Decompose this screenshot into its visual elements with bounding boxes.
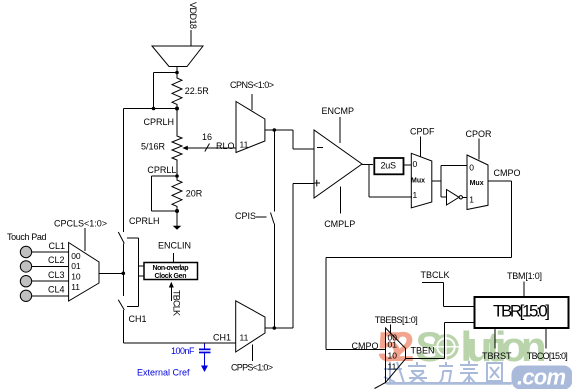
svg-text:CH1: CH1 [213,333,231,343]
svg-text:00: 00 [71,251,81,261]
svg-text:CPNS<1:0>: CPNS<1:0> [230,80,274,90]
svg-text:01: 01 [388,340,398,350]
svg-text:TBM[1:0]: TBM[1:0] [507,271,542,281]
svg-text:.com: .com [517,365,566,389]
svg-text:CPCLS<1:0>: CPCLS<1:0> [54,219,107,229]
svg-text:CMPLP: CMPLP [324,219,355,229]
svg-text:Clock Gen: Clock Gen [155,273,187,280]
svg-text:01: 01 [71,261,81,271]
svg-text:0: 0 [469,163,474,173]
svg-text:TBCO[15:0]: TBCO[15:0] [527,351,568,361]
svg-text:CL2: CL2 [48,255,65,265]
svg-text:TBR[15:0]: TBR[15:0] [493,302,550,321]
svg-text:5/16R: 5/16R [141,142,166,152]
svg-text:TBEN: TBEN [411,346,435,356]
svg-text:22.5R: 22.5R [185,86,210,96]
svg-text:2uS: 2uS [381,161,397,171]
svg-text:Non-overlap: Non-overlap [153,265,189,272]
svg-text:10: 10 [388,351,398,361]
svg-text:CPRLH: CPRLH [144,117,175,127]
svg-text:20R: 20R [186,189,203,199]
svg-text:CPIS: CPIS [235,211,256,221]
svg-text:External Cref: External Cref [137,368,190,378]
svg-text:RLO: RLO [216,141,235,151]
svg-text:TBRST: TBRST [482,351,512,361]
svg-text:10: 10 [71,272,81,282]
svg-text:11: 11 [388,362,397,372]
svg-text:CMPO: CMPO [494,168,521,178]
svg-text:0: 0 [413,159,418,169]
svg-text:ENCMP: ENCMP [322,106,355,116]
svg-text:16: 16 [202,132,212,142]
svg-text:TBCLK: TBCLK [172,290,182,316]
svg-text:1: 1 [413,190,418,200]
svg-text:Touch Pad: Touch Pad [7,232,47,242]
svg-text:CH1: CH1 [129,314,147,324]
svg-text:TBEBS[1:0]: TBEBS[1:0] [375,315,418,325]
svg-text:1: 1 [469,195,474,205]
svg-text:CPOR: CPOR [466,129,493,139]
svg-text:lution: lution [461,323,547,370]
svg-text:11: 11 [71,282,80,292]
svg-text:CL4: CL4 [48,285,65,295]
svg-text:100nF: 100nF [171,346,195,356]
svg-text:CPDF: CPDF [410,127,435,137]
svg-text:CPRLL: CPRLL [147,165,176,175]
svg-text:CL1: CL1 [49,241,66,251]
svg-text:ENCLIN: ENCLIN [158,241,191,251]
svg-text:TBCLK: TBCLK [421,270,450,280]
svg-text:Mux: Mux [411,178,425,185]
svg-text:11: 11 [240,140,249,150]
svg-text:CPRLH: CPRLH [129,216,160,226]
svg-text:CPPS<1:0>: CPPS<1:0> [231,363,273,373]
svg-text:CMPO: CMPO [352,341,379,351]
svg-text:Mux: Mux [470,180,484,187]
svg-text:VDD18: VDD18 [188,2,198,29]
svg-text:11: 11 [240,333,249,343]
svg-text:CL3: CL3 [48,270,65,280]
